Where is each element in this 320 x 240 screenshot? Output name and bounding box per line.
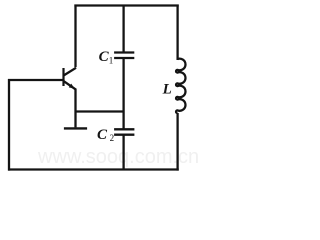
transistor Q1 collector diagonal	[64, 68, 76, 76]
wire right vertical lower (below inductor)	[176, 113, 178, 171]
capacitor C1 top plate	[114, 51, 134, 53]
wire top horizontal	[74, 4, 178, 6]
ground bar	[64, 127, 87, 129]
svg-text:1: 1	[109, 56, 114, 66]
svg-text:L: L	[162, 81, 172, 97]
transistor Q1 base bar	[62, 68, 64, 86]
transistor Q1 emitter diagonal	[64, 81, 76, 89]
wire C1-C2 junction vertical	[122, 58, 124, 129]
capacitor C2 bottom plate	[114, 134, 134, 136]
wire emitter vertical down	[74, 89, 76, 128]
svg-text:2: 2	[110, 133, 115, 143]
wire base horizontal	[8, 79, 63, 81]
svg-text:C: C	[97, 127, 108, 143]
wire collector riser vertical	[74, 5, 76, 68]
transistor Q1 emitter arrowhead	[69, 84, 75, 89]
wire left vertical	[8, 79, 10, 171]
wire right vertical upper (to inductor)	[176, 5, 178, 61]
capacitor C2 top plate	[114, 128, 134, 130]
wire middle horizontal (emitter to capacitor junction)	[76, 110, 124, 112]
capacitor C1 bottom plate	[114, 57, 134, 59]
inductor L coil	[176, 59, 185, 113]
wire C2 bottom vertical	[122, 135, 124, 170]
wire C1 top vertical	[122, 6, 124, 53]
svg-text:www.sooq.com.cn: www.sooq.com.cn	[37, 146, 199, 168]
wire bottom horizontal	[8, 168, 179, 170]
